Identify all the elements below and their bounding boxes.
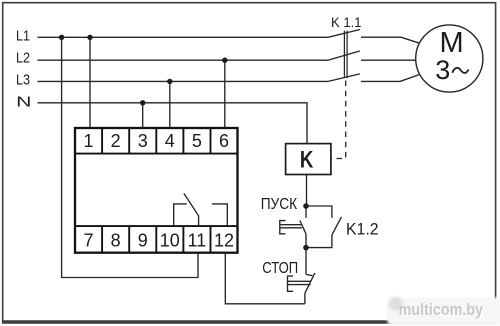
- svg-text:K: K: [300, 147, 314, 174]
- svg-text:4: 4: [165, 131, 175, 151]
- svg-text:ПУСК: ПУСК: [261, 196, 298, 213]
- svg-text:9: 9: [138, 230, 148, 250]
- svg-text:10: 10: [160, 230, 180, 250]
- svg-text:L2: L2: [16, 51, 30, 67]
- svg-text:6: 6: [219, 131, 229, 151]
- svg-text:multicom.by: multicom.by: [399, 300, 484, 319]
- svg-text:L1: L1: [16, 29, 30, 45]
- svg-text:K 1.1: K 1.1: [331, 15, 362, 30]
- svg-text:11: 11: [188, 230, 207, 250]
- svg-text:7: 7: [83, 230, 93, 250]
- svg-text:3: 3: [138, 131, 148, 151]
- svg-text:2: 2: [111, 131, 121, 151]
- svg-text:СТОП: СТОП: [262, 260, 298, 277]
- svg-text:L3: L3: [16, 72, 30, 88]
- svg-text:N: N: [16, 93, 31, 110]
- svg-text:8: 8: [111, 230, 121, 250]
- svg-text:1: 1: [83, 131, 93, 151]
- svg-text:3: 3: [435, 55, 450, 85]
- svg-text:5: 5: [192, 131, 202, 151]
- svg-text:12: 12: [214, 230, 234, 250]
- svg-text:K1.2: K1.2: [346, 221, 379, 239]
